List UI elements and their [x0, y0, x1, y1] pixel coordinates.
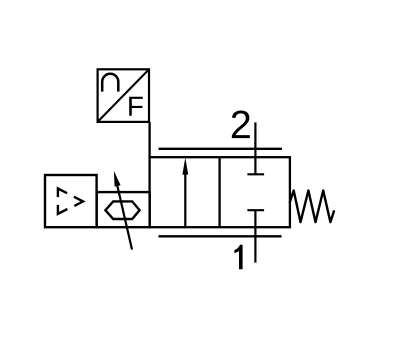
adjustment arrow head	[114, 171, 121, 187]
flow arrow shaft	[184, 172, 186, 228]
bottom rail	[159, 235, 282, 237]
spring	[290, 191, 335, 223]
port 2 line	[254, 122, 256, 174]
wire from function box to valve	[148, 122, 150, 158]
valve square divider	[218, 157, 220, 227]
converter triangle bottom corner	[58, 205, 68, 214]
arc symbol (inverted U)	[102, 74, 118, 92]
adjustment arrow shaft	[116, 180, 132, 250]
port 2 closed crossbar	[247, 173, 264, 175]
converter triangle top corner	[58, 189, 67, 198]
valve body outline	[150, 157, 290, 227]
flow arrow head	[182, 158, 188, 175]
port 1 closed crossbar	[247, 209, 264, 211]
diagonal of function box	[98, 69, 149, 122]
hexagon coil symbol	[105, 201, 139, 219]
function box U1 (filter F)	[98, 69, 149, 122]
converter box (signal converter)	[45, 175, 97, 227]
converter chevron	[74, 197, 83, 206]
solenoid box (proportional coil)	[97, 192, 150, 227]
label port 1	[234, 245, 242, 270]
port 1 line	[254, 210, 256, 262]
label F	[129, 97, 143, 116]
label port 2	[232, 110, 250, 138]
top rail	[159, 148, 283, 150]
